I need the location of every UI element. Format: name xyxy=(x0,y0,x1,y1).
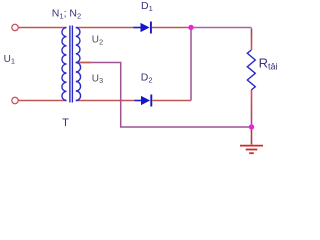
svg-text:T: T xyxy=(62,117,69,129)
svg-text:N1; N2: N1; N2 xyxy=(52,8,81,21)
